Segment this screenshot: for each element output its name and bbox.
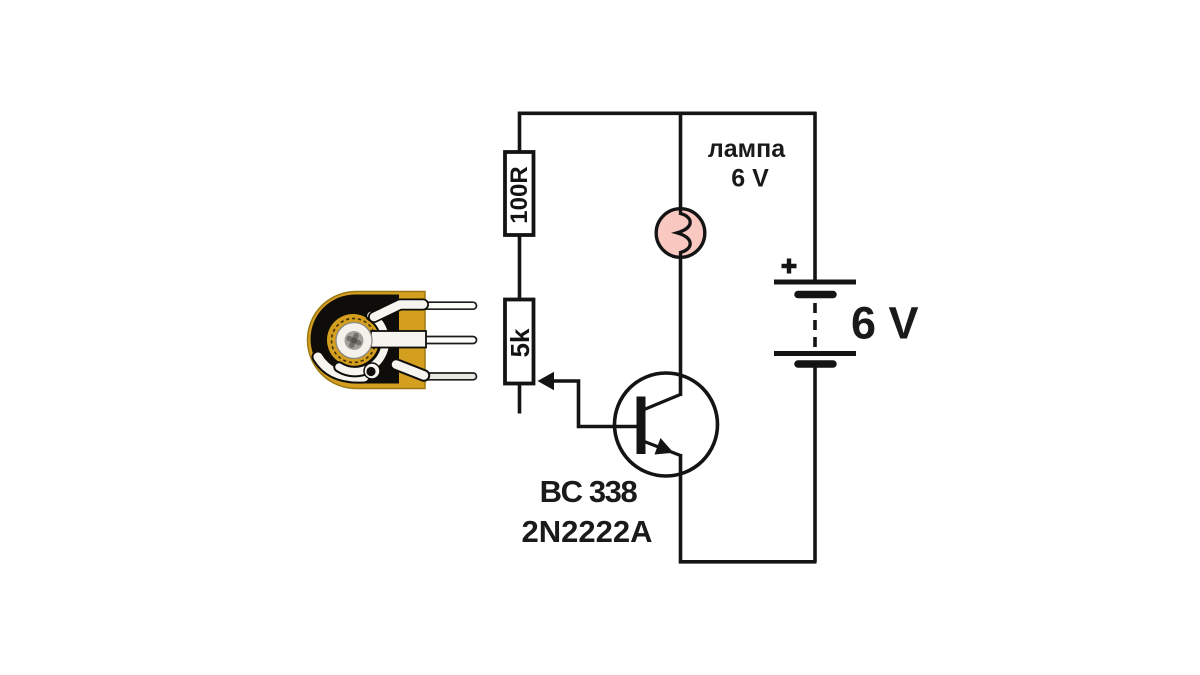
pot body xyxy=(308,292,426,389)
battery dashed link xyxy=(813,303,817,349)
pot carbon disc xyxy=(311,295,399,384)
svg-text:100R: 100R xyxy=(506,166,533,223)
resistor 5k (pot track) xyxy=(505,300,534,384)
battery long plate 1 xyxy=(774,280,856,285)
wire battery minus up from bottom rail xyxy=(813,366,817,562)
potentiometer RV1 photo xyxy=(308,292,477,389)
wire right rail down to battery plus xyxy=(813,112,817,280)
svg-text:6 V: 6 V xyxy=(851,298,919,349)
pot pin 2 (middle) xyxy=(420,337,477,344)
pot pin 3 (bottom) xyxy=(420,373,477,380)
pot orange ring xyxy=(327,314,379,366)
svg-text:BC 338: BC 338 xyxy=(540,474,638,509)
pot screw slots xyxy=(346,332,363,349)
transistor collector diagonal xyxy=(643,394,682,410)
wiper arrowhead into 5k xyxy=(538,372,555,390)
transistor emitter diagonal xyxy=(643,441,682,456)
pot pin 1 (top) xyxy=(420,302,477,309)
battery long plate 2 xyxy=(774,351,856,356)
pot lower wiper spring xyxy=(318,357,364,377)
wire wiper zigzag to base xyxy=(550,381,638,427)
wire between 100R and 5k xyxy=(518,236,522,300)
battery short plate 2 xyxy=(798,360,833,368)
pot bottom tab to pin 3 xyxy=(396,365,424,376)
wire lamp to transistor collector xyxy=(679,256,683,396)
transistor Q1 circle xyxy=(615,373,718,476)
wire collector branch from top rail xyxy=(679,112,683,210)
wire emitter down to bottom rail xyxy=(681,454,817,562)
svg-text:лампа: лампа xyxy=(708,135,786,163)
lamp filament xyxy=(677,209,690,257)
emitter arrowhead xyxy=(655,438,674,455)
pot screw head xyxy=(345,331,364,350)
pot center metal circle xyxy=(336,323,372,359)
svg-text:5k: 5k xyxy=(505,328,535,357)
pot wiper bar to pin 2 xyxy=(371,331,426,348)
wire stub below 5k xyxy=(518,384,522,414)
lamp xyxy=(656,209,705,258)
resistor 100R xyxy=(505,152,534,235)
pot rivet xyxy=(364,363,380,379)
battery plus sign xyxy=(782,259,797,274)
wire top rail xyxy=(520,113,817,153)
pot wiper C arc xyxy=(339,316,385,372)
pot top arm to pin 1 xyxy=(374,305,423,318)
svg-text:6 V: 6 V xyxy=(731,165,769,193)
battery short plate 1 xyxy=(798,291,833,299)
svg-text:2N2222A: 2N2222A xyxy=(522,514,653,549)
transistor base bar xyxy=(637,397,646,455)
